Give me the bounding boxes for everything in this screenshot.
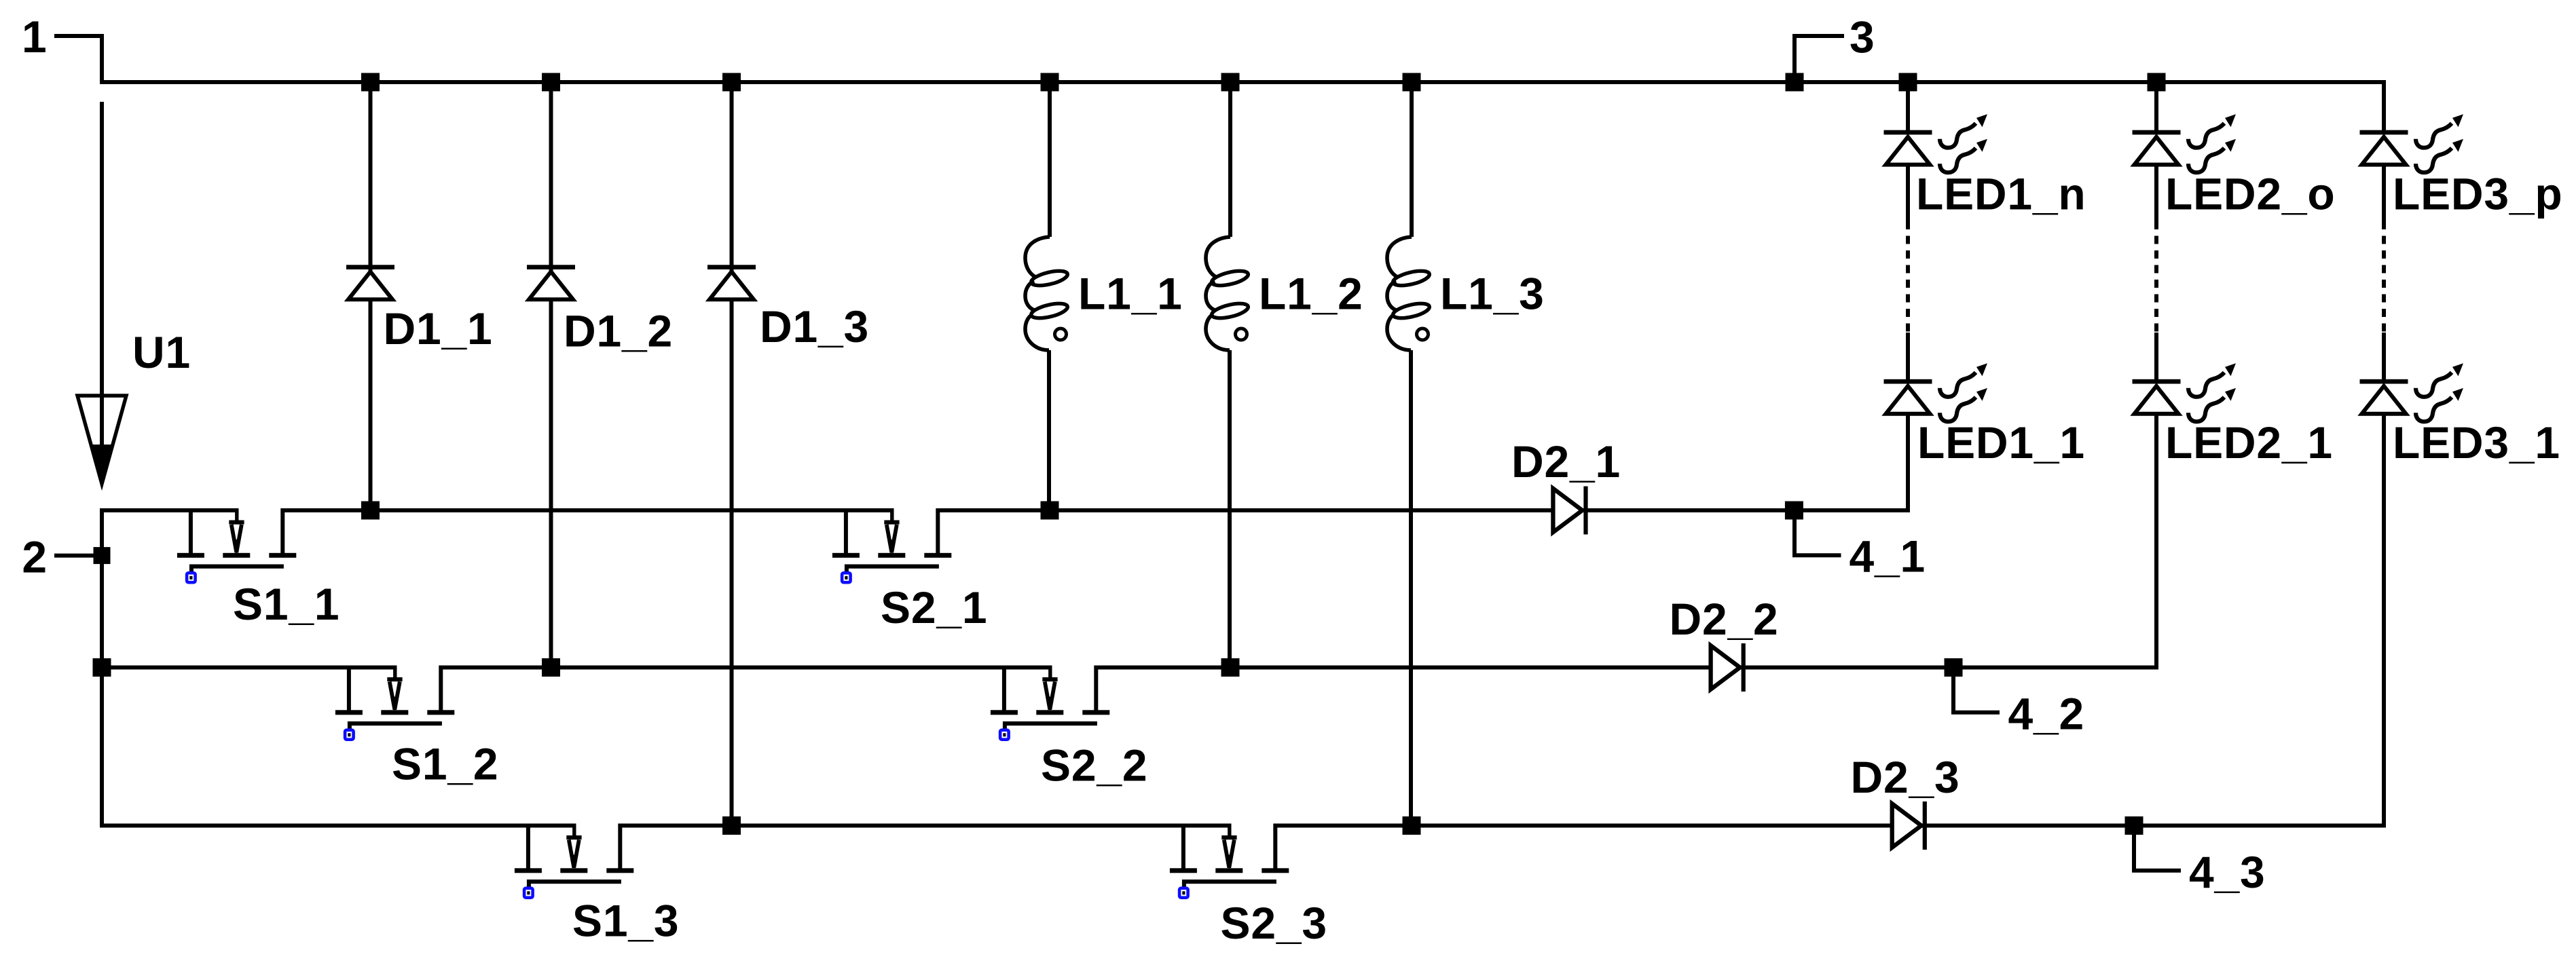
wire LED string 2 dashed (o LEDs) [2154, 221, 2158, 333]
inductor L1_2 [1206, 237, 1249, 350]
transistor S2_3 [1170, 824, 1289, 898]
svg-text:D2_3: D2_3 [1851, 752, 1960, 802]
wire LED string 3 dashed (p LEDs) [2382, 221, 2386, 333]
junction bus/D1_2 [542, 73, 560, 92]
wire row 1 right segment [936, 508, 1908, 512]
wire row 3 right segment [1274, 824, 2384, 828]
svg-text:D2_1: D2_1 [1511, 436, 1621, 487]
wire row 2 middle segment [439, 666, 1052, 670]
wire L1_3 column lower [1409, 350, 1413, 826]
junction row2/left rail [93, 658, 111, 677]
svg-text:S1_3: S1_3 [572, 896, 679, 946]
svg-text:1: 1 [22, 12, 48, 62]
svg-text:LED1_n: LED1_n [1916, 169, 2086, 219]
LED LED1_1 [1884, 363, 1988, 421]
svg-text:LED3_1: LED3_1 [2393, 417, 2560, 468]
transistor S2_1 [832, 508, 951, 582]
svg-text:S2_1: S2_1 [881, 582, 987, 632]
diode D1_1 [346, 265, 394, 299]
junction bus/L1_1 [1041, 73, 1059, 92]
svg-text:LED3_p: LED3_p [2393, 169, 2563, 219]
transistor S1_3 [515, 824, 633, 898]
LED LED2_o [2133, 114, 2237, 172]
wire LED string 3 mid solid [2382, 165, 2386, 221]
junction bus/D1_1 [361, 73, 380, 92]
inductor L1_3 [1387, 237, 1431, 350]
svg-text:4_1: 4_1 [1850, 531, 1926, 582]
svg-text:S1_2: S1_2 [392, 739, 498, 789]
svg-text:L1_3: L1_3 [1440, 269, 1545, 319]
transistor S1_2 [335, 666, 454, 740]
svg-text:S1_1: S1_1 [233, 579, 339, 629]
wire L1_1 column upper [1048, 82, 1052, 237]
LED LED3_p [2360, 114, 2464, 172]
svg-text:LED2_o: LED2_o [2165, 169, 2336, 219]
junction row2/L1_2 [1221, 658, 1240, 677]
junction row2/node 4_2 [1945, 658, 1963, 677]
node 1 terminal stub [54, 36, 102, 82]
junction row1/D1_1 [361, 502, 380, 520]
junction bus/LED string 1 [1899, 73, 1917, 92]
wire row 3 left segment [100, 824, 576, 828]
svg-text:L1_1: L1_1 [1078, 269, 1183, 319]
diode D2_1 [1553, 487, 1587, 535]
junction row3/node 4_3 [2125, 816, 2143, 835]
junction row2/D1_2 [542, 658, 560, 677]
voltage source U1 (arrow symbol) [77, 396, 126, 488]
junction node 2/left rail [94, 547, 111, 564]
node 2 terminal stub [54, 554, 102, 558]
junction row3/L1_3 [1403, 816, 1421, 835]
svg-text:LED1_1: LED1_1 [1917, 417, 2085, 468]
wire row 1 middle segment [281, 508, 894, 512]
wire top bus (net 1/3) [100, 80, 2384, 84]
svg-text:U1: U1 [132, 327, 191, 377]
junction bus/L1_2 [1221, 73, 1240, 92]
svg-text:4_2: 4_2 [2008, 689, 2085, 739]
wire L1_1 column lower [1047, 350, 1051, 510]
diode D2_2 [1711, 643, 1746, 692]
junction bus/L1_3 [1403, 73, 1421, 92]
wire D1_3 column [730, 82, 734, 826]
wire L1_3 column upper [1410, 82, 1414, 237]
junction row3/D1_3 [722, 816, 741, 835]
junction bus/node 3 [1786, 73, 1804, 92]
wire row 3 middle segment [619, 824, 1231, 828]
svg-text:L1_2: L1_2 [1259, 269, 1363, 319]
wire row 2 right segment [1094, 666, 2156, 670]
svg-text:2: 2 [22, 531, 48, 582]
node 3 terminal stub [1795, 36, 1844, 82]
junction bus/LED string 2 [2148, 73, 2166, 92]
wire LED string 3 top [2382, 80, 2386, 132]
svg-text:D2_2: D2_2 [1670, 594, 1779, 644]
wire LED string 1 above LED1_1 [1906, 333, 1910, 381]
diode D1_3 [707, 265, 756, 299]
LED LED1_n [1884, 114, 1988, 172]
svg-text:LED2_1: LED2_1 [2165, 417, 2333, 468]
wire LED string 1 dashed (n LEDs) [1906, 221, 1910, 333]
svg-text:D1_3: D1_3 [760, 301, 869, 352]
wire LED string 2 mid solid [2154, 165, 2158, 221]
svg-text:S2_3: S2_3 [1221, 898, 1327, 948]
wire row 1 left segment [100, 508, 239, 512]
wire L1_2 column upper [1228, 82, 1232, 237]
svg-text:3: 3 [1850, 12, 1875, 62]
junction row1/L1_1 [1041, 502, 1059, 520]
node 4_1 terminal stub [1795, 510, 1841, 555]
svg-text:S2_2: S2_2 [1041, 740, 1147, 791]
wire LED string 1 top [1906, 82, 1910, 132]
svg-text:D1_1: D1_1 [384, 303, 493, 354]
wire D1_2 column [549, 82, 553, 668]
junction row1/node 4_1 [1785, 502, 1803, 520]
transistor S1_1 [177, 508, 296, 582]
wire LED string 2 above LED2_1 [2154, 333, 2158, 381]
LED LED2_1 [2133, 363, 2237, 421]
wire D1_1 column [369, 82, 373, 510]
wire left rail (net 2) [100, 508, 104, 826]
wire LED string 1 mid solid [1906, 165, 1910, 221]
junction bus/D1_3 [722, 73, 741, 92]
node 4_3 terminal stub [2134, 826, 2181, 871]
wire LED string 1 bottom [1906, 414, 1910, 512]
transistor S2_2 [991, 666, 1109, 740]
wire LED string 2 bottom [2154, 414, 2158, 670]
node 4_2 terminal stub [1953, 668, 2000, 713]
wire row 2 left segment [100, 666, 397, 670]
svg-text:4_3: 4_3 [2189, 847, 2266, 897]
wire L1_2 column lower [1228, 350, 1232, 668]
wire LED string 3 bottom [2382, 414, 2386, 828]
diode D1_2 [527, 265, 575, 299]
wire LED string 3 above LED3_1 [2382, 333, 2386, 381]
wire U1 lead [100, 102, 104, 483]
LED LED3_1 [2360, 363, 2464, 421]
diode D2_3 [1892, 801, 1927, 850]
wire LED string 2 top [2154, 82, 2158, 132]
svg-text:D1_2: D1_2 [564, 306, 673, 356]
inductor L1_1 [1025, 237, 1069, 350]
